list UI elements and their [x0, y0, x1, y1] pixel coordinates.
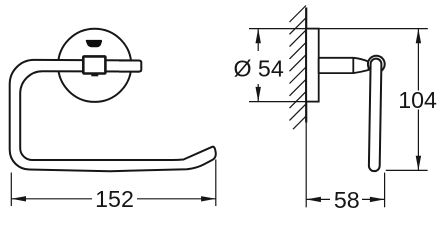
pivot circle [368, 56, 385, 73]
dim Ø54: vertical line [257, 29, 259, 51]
post / cone arm [319, 58, 369, 73]
top extension line (shared by Ø54 and 104) [249, 28, 428, 30]
post step line [352, 58, 354, 73]
svg-text:152: 152 [95, 186, 134, 212]
Ø54 bottom extension line [249, 101, 319, 103]
dim 104: vertical line [417, 29, 419, 91]
wall hatching [290, 6, 307, 130]
dim 104: top arrow [416, 29, 421, 44]
dim 152: right arrow [201, 196, 216, 201]
svg-text:Ø 54: Ø 54 [233, 56, 283, 82]
wall flange (Ø54 rosette side) [306, 29, 319, 102]
dim 152: dimension line [11, 198, 92, 200]
wall line [305, 8, 307, 123]
bar right end cap [119, 60, 141, 71]
dim 58: dimension line [306, 198, 330, 200]
dim 58: right extension line [384, 173, 386, 208]
GROHE logo blob [86, 40, 102, 47]
center square boss [91, 73, 98, 76]
dim 58: left arrow [306, 197, 321, 202]
ring side profile (capsule) [369, 59, 382, 172]
dim Ø54: bottom arrow [256, 87, 261, 102]
svg-text:58: 58 [334, 187, 360, 213]
dim 152: left extension line [10, 173, 12, 207]
dim 152: right extension line [215, 160, 217, 207]
mount circle (rosette) [58, 29, 131, 102]
holder tube (ring) [10, 60, 216, 171]
dim 104: bottom arrow [416, 156, 421, 171]
dim 58: right arrow [370, 197, 385, 202]
dim 104: bottom extension line [386, 169, 428, 171]
dim Ø54: top arrow [256, 29, 261, 44]
dim 58: left extension line [305, 123, 307, 208]
dim 152: left arrow [11, 196, 26, 201]
svg-text:104: 104 [398, 87, 437, 113]
